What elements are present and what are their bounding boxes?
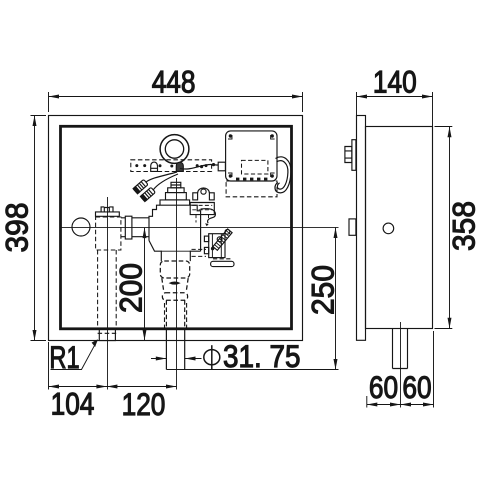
dimension 104/120 line — [49, 386, 177, 388]
back panel hole — [72, 218, 90, 236]
side body hole — [383, 223, 394, 234]
sensor mounting bar (dashed) — [131, 160, 212, 172]
side view flange plate — [357, 116, 366, 341]
vacuum breaker vent lens (black) — [169, 282, 181, 285]
pilot bottom bar — [211, 261, 234, 266]
controller base plate (dashed) — [226, 181, 277, 197]
pilot dashed base — [213, 258, 231, 260]
svg-text:31. 75: 31. 75 — [223, 339, 300, 374]
union nut — [125, 216, 132, 239]
dimension 60/60 extension lines — [367, 331, 434, 408]
pilot lever (hatched) — [213, 229, 232, 250]
svg-text:250: 250 — [305, 265, 341, 315]
phi 31.75 arrows — [151, 358, 202, 360]
dimension 104/120 extension lines — [48, 342, 50, 390]
svg-text:398: 398 — [0, 203, 35, 253]
phi diameter symbol — [204, 350, 220, 365]
pilot lever pivots — [225, 229, 230, 234]
svg-text:60: 60 — [369, 371, 398, 406]
vacuum breaker collar (dashed) — [162, 293, 187, 300]
riser pipe sleeve below box — [99, 329, 115, 341]
controller corner screws — [229, 134, 274, 177]
controller cable loop — [275, 157, 291, 193]
svg-text:358: 358 — [446, 201, 480, 251]
controller box — [226, 131, 277, 181]
vacuum breaker taper (dashed) — [162, 278, 188, 292]
flush pipe hidden (dashed) — [166, 300, 184, 329]
diaphragm cover clamp — [193, 193, 198, 200]
solenoid bell on bar — [151, 162, 158, 171]
sensor mount block on bar — [176, 162, 183, 171]
pilot pin dot — [211, 247, 214, 250]
stop valve bolt — [101, 207, 113, 212]
inlet pipe to valve body — [121, 218, 149, 237]
dimension 60/60 line — [367, 404, 434, 406]
flush pipe below box (solid) — [166, 329, 184, 369]
stop valve riser pipe (dashed hidden) — [98, 250, 117, 329]
sensor window circle — [160, 135, 189, 164]
svg-text:120: 120 — [122, 388, 166, 423]
riser pipe hidden joint — [98, 332, 117, 334]
svg-text:140: 140 — [373, 66, 417, 101]
cable from bar to connector plugs — [146, 172, 178, 190]
controller battery box (dashed) — [242, 160, 268, 174]
body cap bolt — [171, 182, 181, 188]
wire connector dots — [200, 163, 215, 168]
dimension 448 line — [49, 96, 303, 98]
dimension 358 line — [449, 127, 451, 329]
side wall bolt — [352, 140, 356, 171]
svg-text:104: 104 — [51, 387, 95, 422]
inner box opening (thick frame) — [61, 126, 292, 328]
connector plug 2 — [140, 187, 155, 201]
body top flange steps — [160, 200, 190, 205]
pilot valve block — [209, 234, 225, 258]
wire from bar to controller box — [180, 164, 218, 169]
outer wall box front view — [49, 116, 303, 341]
dimension 398 line — [34, 116, 36, 341]
side pipe stub — [393, 329, 408, 369]
flush pipe socket (dashed) — [165, 303, 187, 329]
dimension 250 line — [335, 228, 337, 370]
horizontal center line of valve inlet — [61, 226, 339, 228]
side view body — [366, 127, 433, 329]
controller corner notches — [228, 135, 275, 177]
outlet arm and hook — [201, 209, 216, 224]
controller terminal marks — [236, 178, 267, 181]
stop valve cap — [96, 212, 120, 216]
bar screw dots — [135, 164, 207, 167]
svg-text:448: 448 — [152, 65, 196, 100]
dimension 448 arrows — [49, 95, 303, 99]
clamp base bracket — [190, 203, 214, 215]
dimension 398 extension lines — [31, 116, 47, 341]
dimension 140 line — [357, 96, 433, 98]
dimension 448 extension lines — [49, 92, 303, 112]
vertical center line of flush pipe — [176, 178, 178, 390]
svg-text:60: 60 — [402, 371, 431, 406]
vertical center line of stop valve pipe — [107, 197, 109, 390]
dimension 200 line — [144, 228, 146, 340]
stop valve body (dashed) — [96, 217, 121, 250]
dimension 398 arrows — [33, 116, 37, 341]
vacuum breaker body (hidden, dashed) — [160, 261, 189, 278]
connector plug 1 — [133, 179, 148, 193]
dimension 140 extension lines — [357, 92, 433, 123]
dimension 358 extension lines — [435, 127, 453, 329]
svg-text:200: 200 — [113, 263, 149, 313]
side pipe center line — [400, 322, 402, 408]
wire plug at controller — [218, 162, 225, 171]
pilot block side tabs — [204, 236, 208, 242]
side hinge — [349, 219, 356, 235]
flush pipe end line / extension to 250 dim — [166, 369, 338, 371]
pilot valve link (dashed) — [192, 249, 207, 256]
R1 leader line — [51, 341, 98, 370]
hook arrowhead — [205, 223, 209, 226]
svg-text:R1: R1 — [49, 340, 79, 375]
flush valve main body — [149, 205, 201, 251]
